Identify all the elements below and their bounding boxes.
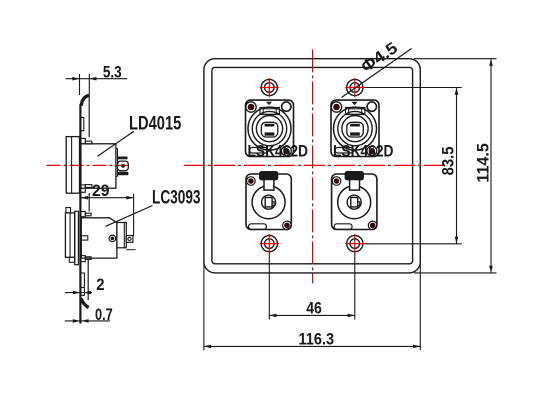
dimension 2: [65, 291, 92, 295]
panel front face: [79, 105, 81, 324]
LD4015 pin 2 dot: [121, 164, 125, 168]
LC3093 middle strip: [75, 211, 79, 264]
LC3093 flange bottom bit: [69, 257, 74, 262]
mounting hole top-left: [260, 78, 279, 97]
plate outer outline: [204, 59, 420, 273]
panel rim line bottom: [87, 260, 89, 300]
svg-text:5.3: 5.3: [103, 64, 122, 82]
svg-text:29: 29: [92, 182, 110, 200]
vertical centerline: [312, 49, 314, 283]
LC3093 inner tab: [81, 236, 88, 240]
panel clip top: [81, 117, 84, 130]
LD4015 body: [81, 144, 116, 188]
dimension phi4.5 leader: [342, 49, 412, 98]
LD4015 pin 3: [118, 172, 129, 175]
LC3093 front flange: [65, 213, 74, 257]
LC3093 top bolt: [81, 212, 91, 217]
horizontal centerline (side view): [47, 164, 130, 166]
dimension 29: [81, 194, 134, 236]
LC3093 front flange inner edge: [69, 213, 71, 257]
panel top rolled edge: [81, 95, 89, 106]
panel rim line top: [88, 94, 90, 137]
svg-text:LSK462D: LSK462D: [333, 142, 394, 161]
LD4015 top bolt: [81, 138, 92, 144]
dimension 5.3: [66, 74, 128, 95]
LD4015 flange inner edge: [71, 137, 73, 194]
mounting hole bottom-right: [345, 234, 364, 253]
horizontal centerline (front view): [184, 164, 447, 166]
powerCON connector left: [246, 100, 294, 156]
svg-text:0.7: 0.7: [95, 306, 113, 324]
panel rim line middle: [88, 193, 90, 211]
LC3093 barrel inner edge: [123, 223, 125, 248]
panel bottom rolled edge: [81, 298, 88, 307]
svg-text:LD4015: LD4015: [129, 114, 182, 135]
label LD4015 leader: [98, 131, 134, 156]
LC3093 screw head: [109, 235, 116, 242]
LC3093 body: [81, 218, 117, 258]
panel clip bottom: [81, 273, 85, 295]
LC3093 right tab: [126, 236, 133, 243]
LC3093 bottom bolt: [81, 256, 91, 262]
dimension 0.7: [65, 319, 110, 323]
svg-text:2: 2: [96, 276, 104, 294]
LD4015 pin 1: [118, 157, 128, 160]
XLR connector left: [246, 171, 291, 230]
LD4015 bottom bolt: [81, 185, 92, 193]
svg-text:114.5: 114.5: [474, 143, 492, 182]
svg-text:46: 46: [306, 300, 322, 318]
LD4015 flange: [66, 137, 79, 194]
mounting hole top-right: [345, 78, 364, 97]
LC3093 latch bump: [66, 208, 71, 213]
svg-text:116.3: 116.3: [299, 330, 335, 348]
label LC3093 leader: [106, 206, 153, 227]
svg-text:LC3093: LC3093: [152, 188, 201, 209]
dimension 116.3: [204, 262, 420, 350]
dimension 46: [269, 253, 355, 320]
LC3093 tab lead line: [126, 249, 135, 251]
plate inner outline: [212, 67, 413, 263]
mounting hole bottom-left: [260, 234, 279, 253]
svg-text:83.5: 83.5: [440, 147, 458, 176]
LD4015 plug face plate: [116, 149, 118, 177]
LC3093 barrel: [117, 223, 126, 248]
dimension 114.5: [414, 59, 497, 273]
dimension 83.5: [364, 88, 462, 244]
XLR connector right: [332, 171, 377, 230]
powerCON connector right: [331, 100, 379, 156]
svg-text:LSK462D: LSK462D: [248, 142, 309, 161]
LD4015 pin 2: [118, 161, 129, 171]
